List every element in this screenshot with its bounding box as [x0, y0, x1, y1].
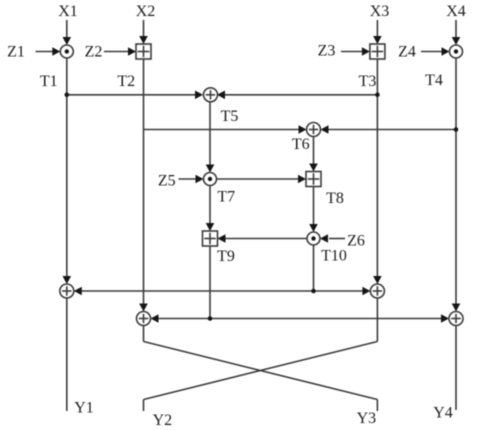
svg-text:Y1: Y1 — [74, 400, 94, 417]
svg-text:X4: X4 — [446, 3, 466, 20]
svg-text:T9: T9 — [217, 248, 235, 265]
svg-text:Z4: Z4 — [398, 44, 416, 61]
svg-text:X2: X2 — [136, 3, 156, 20]
svg-text:Z1: Z1 — [7, 44, 25, 61]
svg-text:Z5: Z5 — [158, 173, 176, 190]
svg-text:T1: T1 — [40, 73, 58, 90]
svg-text:Z3: Z3 — [318, 43, 336, 60]
svg-text:Y3: Y3 — [357, 410, 377, 427]
svg-text:Z6: Z6 — [347, 233, 365, 250]
svg-text:T2: T2 — [117, 73, 135, 90]
svg-text:T3: T3 — [359, 73, 377, 90]
svg-text:T10: T10 — [321, 248, 347, 265]
svg-text:T7: T7 — [217, 189, 235, 206]
svg-text:T6: T6 — [292, 136, 310, 153]
svg-text:X3: X3 — [370, 3, 390, 20]
svg-text:T5: T5 — [221, 108, 239, 125]
svg-text:Z2: Z2 — [85, 44, 103, 61]
svg-text:Y2: Y2 — [153, 412, 173, 429]
svg-text:Y4: Y4 — [433, 405, 453, 422]
svg-text:X1: X1 — [58, 3, 78, 20]
svg-text:T8: T8 — [326, 190, 344, 207]
svg-text:T4: T4 — [425, 72, 443, 89]
